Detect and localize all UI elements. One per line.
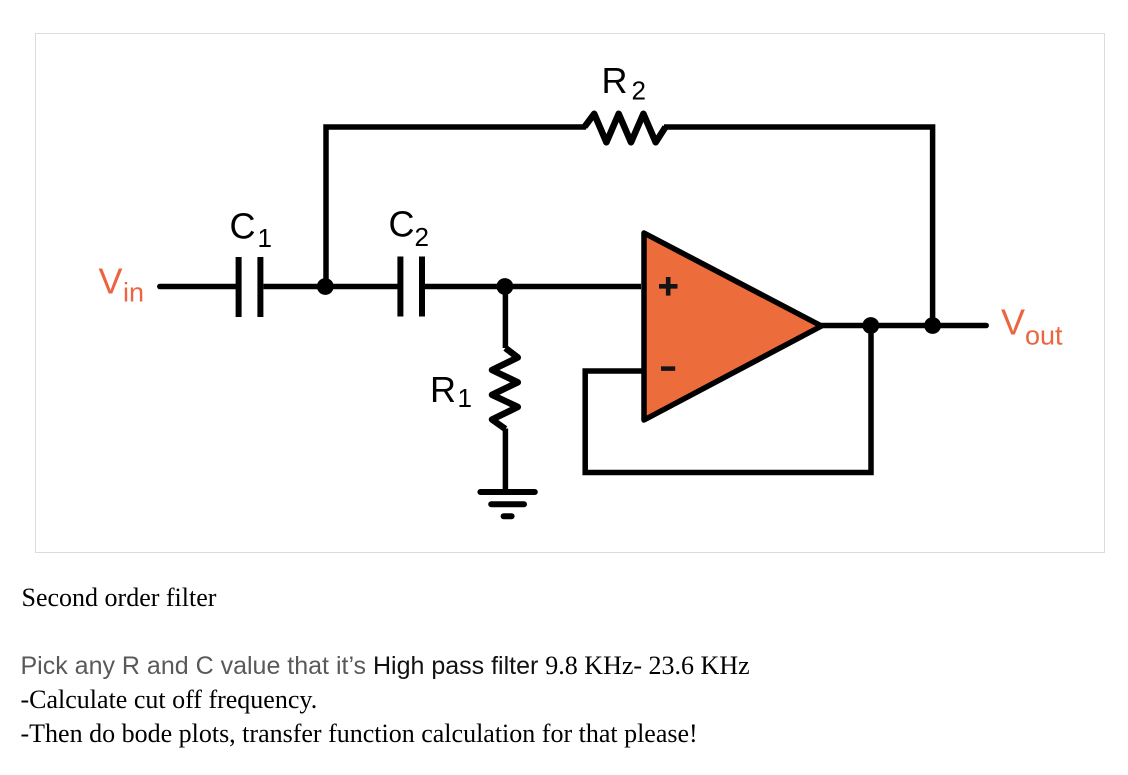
capacitor C2	[400, 257, 422, 317]
svg-text:R: R	[430, 369, 456, 410]
svg-text:1: 1	[458, 383, 472, 413]
resistor R1	[492, 348, 518, 429]
pin + (non-inverting input)	[659, 277, 678, 296]
wire Vin to C1	[160, 284, 236, 290]
label C1	[230, 206, 272, 253]
wire node B down to R1	[503, 287, 509, 349]
node Vin label	[99, 261, 145, 308]
op-amp U1	[644, 233, 822, 420]
wire C1 to node A	[264, 284, 326, 290]
caption: Second order filter	[22, 581, 217, 615]
label R1	[430, 369, 472, 413]
figure border frame	[35, 33, 1105, 553]
svg-text:V: V	[1001, 302, 1025, 343]
question paragraph	[21, 649, 750, 752]
wire op-amp output to Vout	[822, 323, 987, 329]
svg-text:1: 1	[258, 223, 272, 253]
svg-text:out: out	[1025, 321, 1063, 351]
svg-text:2: 2	[415, 222, 429, 252]
junction node A	[317, 278, 334, 295]
svg-text:R: R	[602, 60, 628, 101]
node Vout label	[1001, 302, 1063, 351]
wire C2 to node B and op-amp + input	[425, 284, 641, 290]
junction R2 feedback node	[924, 317, 941, 334]
label R2	[602, 60, 646, 106]
svg-text:C: C	[389, 204, 415, 245]
junction node B	[497, 278, 514, 295]
svg-text:in: in	[123, 278, 144, 308]
svg-text:2: 2	[632, 76, 646, 106]
svg-text:V: V	[99, 261, 123, 302]
junction output node	[862, 317, 879, 334]
wire node A to C2	[325, 284, 398, 290]
wire feedback: - input left, down, right, up to output	[585, 326, 871, 473]
ground	[480, 492, 534, 516]
wire node A up and across to R2	[326, 127, 586, 287]
wire R1 to ground	[503, 429, 509, 493]
label C2	[389, 204, 429, 253]
resistor R2	[584, 114, 665, 143]
wire R2 to output node	[664, 127, 933, 322]
capacitor C1	[239, 257, 261, 317]
svg-text:C: C	[230, 206, 256, 247]
pin - (inverting input)	[661, 366, 675, 371]
